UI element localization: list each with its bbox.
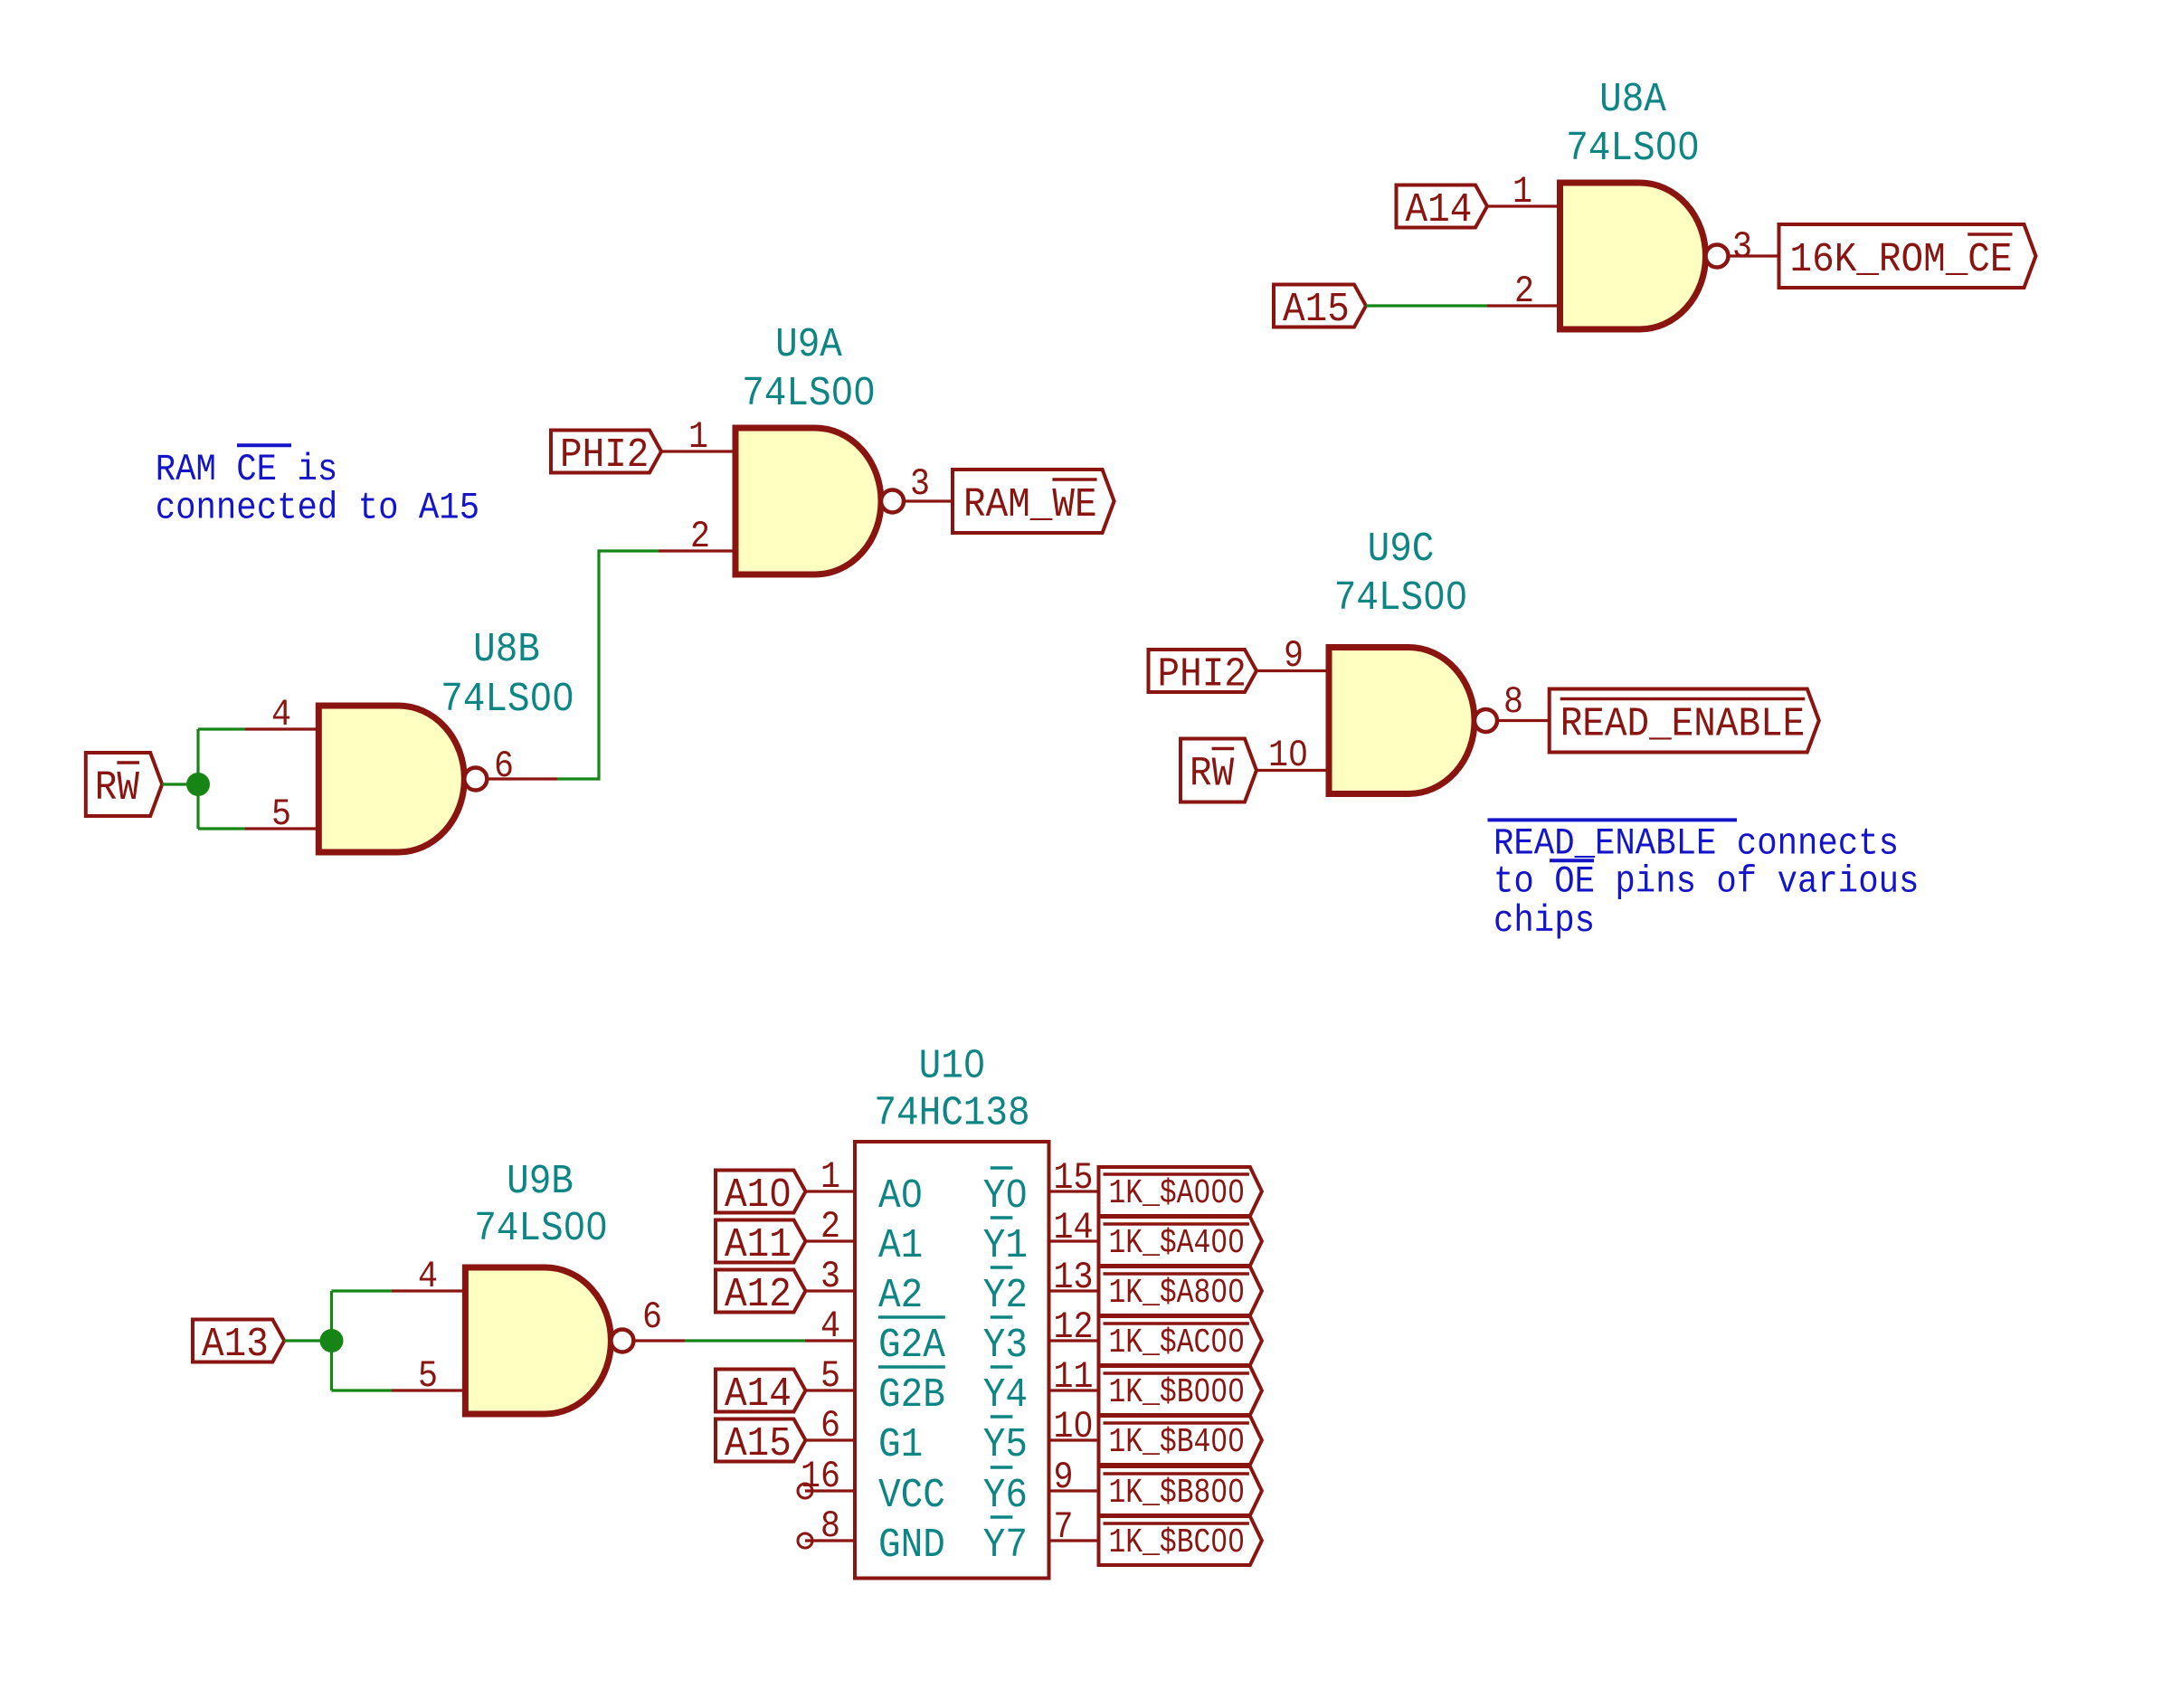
U10 pin name G2B [878, 1367, 945, 1419]
svg-text:U9B: U9B [507, 1159, 574, 1205]
svg-text:10: 10 [1268, 734, 1308, 777]
U10 pin 2 (A1) left [805, 1205, 855, 1248]
global label 1K_$A800 (overline all) [1099, 1267, 1262, 1315]
global label A12 at U10 [716, 1270, 806, 1319]
U8B pin 6 (output) [488, 745, 557, 788]
svg-text:U9C: U9C [1368, 527, 1435, 573]
svg-text:5: 5 [418, 1354, 438, 1398]
svg-text:PHI2: PHI2 [560, 432, 649, 479]
U10 pin 3 (A2) left [805, 1255, 855, 1298]
svg-text:A1: A1 [878, 1223, 923, 1269]
U8B pin 4 [245, 693, 318, 736]
global label 1K_$A400 (overline all) [1099, 1217, 1262, 1266]
svg-text:Y5: Y5 [983, 1422, 1028, 1468]
svg-text:1K_$A400: 1K_$A400 [1109, 1224, 1245, 1263]
U8A pin 2 [1487, 270, 1560, 313]
svg-text:2: 2 [1514, 270, 1534, 313]
U9B value 74LS00 [474, 1206, 608, 1252]
svg-text:G1: G1 [878, 1422, 923, 1468]
svg-text:3: 3 [1732, 225, 1752, 269]
svg-text:RAM CE is: RAM CE is [156, 448, 338, 491]
U8A reference U8A [1599, 77, 1666, 123]
svg-text:VCC: VCC [878, 1473, 945, 1519]
U10 pin 9 (Y6) right [1049, 1456, 1099, 1499]
svg-text:GND: GND [878, 1523, 945, 1569]
svg-text:A14: A14 [725, 1371, 792, 1418]
U10 pin name Y6 [983, 1467, 1028, 1519]
svg-text:U9A: U9A [775, 322, 842, 368]
U9A pin 1 [661, 415, 735, 459]
svg-text:U8A: U8A [1599, 77, 1666, 123]
svg-text:1K_$AC00: 1K_$AC00 [1109, 1324, 1245, 1362]
wire RW to junction [162, 783, 198, 785]
U9A value 74LS00 [742, 371, 876, 417]
global label 1K_$B400 (overline all) [1099, 1416, 1262, 1465]
U10 pin name Y3 [983, 1317, 1028, 1369]
svg-text:4: 4 [820, 1305, 840, 1348]
global label A10 at U10 [716, 1171, 806, 1219]
svg-text:1: 1 [1512, 170, 1532, 213]
global label A14 at U10 [716, 1370, 806, 1419]
U10 pin 7 (Y7) right [1049, 1505, 1099, 1549]
U10 pin 1 (A0) left [805, 1155, 855, 1199]
GND unconnected flag [798, 1533, 812, 1548]
wire A13 to junction [284, 1339, 331, 1342]
U9C value 74LS00 [1334, 575, 1468, 622]
global label 1K_$B000 (overline all) [1099, 1366, 1262, 1415]
U9A pin 2 [659, 515, 735, 558]
svg-text:6: 6 [494, 745, 514, 788]
global label 1K_$BC00 (overline all) [1099, 1516, 1262, 1565]
VCC unconnected flag [798, 1484, 812, 1498]
note: RAM CE is connected to A15 [156, 445, 479, 529]
U9B pin 5 [392, 1354, 465, 1398]
global label A15 at U10 [716, 1419, 806, 1468]
U8A pin 3 (output) [1729, 225, 1779, 269]
U8B reference U8B [473, 627, 540, 673]
svg-text:READ_ENABLE: READ_ENABLE [1560, 702, 1806, 748]
U10 pin name G1 [878, 1422, 923, 1468]
svg-text:Y7: Y7 [983, 1523, 1028, 1569]
U8A pin 1 [1487, 170, 1560, 213]
wire A15 to U8A pin 2 [1366, 304, 1487, 307]
svg-text:74LS00: 74LS00 [1334, 575, 1468, 622]
svg-text:74LS00: 74LS00 [742, 371, 876, 417]
global label 1K_$B800 (overline all) [1099, 1466, 1262, 1515]
svg-text:9: 9 [1284, 634, 1304, 678]
svg-text:A15: A15 [725, 1421, 792, 1467]
global label RW at U9C (overline W) [1181, 739, 1256, 802]
wire junction vertical at U9B [330, 1291, 333, 1390]
wire U9B out to U10 G2A [685, 1339, 806, 1342]
U10 pin name Y4 [983, 1367, 1028, 1419]
svg-text:16: 16 [801, 1455, 840, 1498]
gate U9C 74LS00 NAND [1329, 648, 1497, 794]
U10 pin name G2A [878, 1317, 945, 1369]
U10 pin 11 (Y4) right [1049, 1355, 1099, 1399]
note: READ_ENABLE connects to OE pins of various chips [1488, 820, 1920, 943]
U8B pin 5 [245, 792, 318, 836]
svg-text:A11: A11 [725, 1222, 792, 1268]
U10 pin 8 (GND) left [805, 1504, 855, 1548]
svg-text:16K_ROM_CE: 16K_ROM_CE [1790, 237, 2013, 283]
svg-text:15: 15 [1054, 1156, 1094, 1200]
svg-text:1K_$B400: 1K_$B400 [1109, 1423, 1245, 1462]
svg-text:1: 1 [820, 1155, 840, 1199]
svg-text:10: 10 [1054, 1405, 1094, 1448]
U10 pin 12 (Y3) right [1049, 1305, 1099, 1349]
svg-text:13: 13 [1054, 1256, 1094, 1299]
gate U9A 74LS00 NAND [735, 428, 904, 574]
svg-text:1: 1 [688, 415, 708, 459]
U10 pin name Y7 [983, 1517, 1028, 1569]
svg-text:A2: A2 [878, 1273, 923, 1319]
svg-text:A12: A12 [725, 1272, 792, 1318]
global label READ_ENABLE (overline all) [1550, 689, 1819, 753]
svg-text:chips: chips [1493, 899, 1595, 943]
gate U9B 74LS00 NAND [465, 1267, 633, 1414]
svg-text:5: 5 [820, 1354, 840, 1398]
svg-text:4: 4 [271, 693, 291, 736]
wire to U9B pin 4 [332, 1289, 393, 1292]
U10 pin 5 (G2B) left [805, 1354, 855, 1398]
U9C reference U9C [1368, 527, 1435, 573]
global label PHI2 [551, 431, 661, 479]
U10 pin 6 (G1) left [805, 1404, 855, 1447]
U10 pin name A1 [878, 1223, 923, 1269]
U10 pin 10 (Y5) right [1049, 1405, 1099, 1448]
U10 pin name Y2 [983, 1267, 1028, 1319]
svg-text:8: 8 [1503, 680, 1523, 724]
svg-text:Y6: Y6 [983, 1473, 1028, 1519]
svg-text:6: 6 [820, 1404, 840, 1447]
svg-text:5: 5 [271, 792, 291, 836]
gate U8A 74LS00 NAND [1560, 183, 1729, 329]
global label A15 [1274, 285, 1366, 334]
gate U8B 74LS00 NAND [318, 706, 487, 852]
svg-text:A0: A0 [878, 1173, 923, 1219]
U10 pin name Y0 [983, 1168, 1028, 1219]
svg-text:Y1: Y1 [983, 1223, 1028, 1269]
svg-text:READ_ENABLE connects: READ_ENABLE connects [1493, 821, 1899, 865]
svg-text:1K_$B800: 1K_$B800 [1109, 1474, 1245, 1513]
svg-text:14: 14 [1054, 1206, 1094, 1249]
svg-text:8: 8 [820, 1504, 840, 1548]
global label RAM_WE (overline WE) [953, 470, 1114, 533]
svg-text:3: 3 [910, 462, 930, 506]
svg-text:G2B: G2B [878, 1372, 945, 1419]
svg-text:1K_$A000: 1K_$A000 [1109, 1174, 1245, 1213]
U10 pin 15 (Y0) right [1049, 1156, 1099, 1200]
U9C pin 8 (output) [1498, 680, 1550, 724]
svg-text:Y4: Y4 [983, 1372, 1028, 1419]
svg-text:RAM_WE: RAM_WE [963, 482, 1097, 528]
svg-text:A13: A13 [202, 1322, 269, 1368]
svg-text:74LS00: 74LS00 [474, 1206, 608, 1252]
svg-text:7: 7 [1054, 1505, 1074, 1549]
svg-text:RW: RW [95, 765, 139, 811]
U10 pin 4 (G2A) left [805, 1305, 855, 1348]
U10 pin name A2 [878, 1273, 923, 1319]
svg-text:2: 2 [820, 1205, 840, 1248]
U9C pin 10 [1256, 734, 1329, 777]
U10 pin name A0 [878, 1173, 923, 1219]
svg-text:9: 9 [1054, 1456, 1074, 1499]
svg-text:U8B: U8B [473, 627, 540, 673]
svg-text:2: 2 [690, 515, 710, 558]
U10 pin name Y1 [983, 1218, 1028, 1269]
svg-text:3: 3 [820, 1255, 840, 1298]
svg-text:A14: A14 [1406, 187, 1473, 233]
U10 pin name GND [878, 1523, 945, 1569]
svg-text:connected to A15: connected to A15 [156, 487, 479, 530]
svg-text:74LS00: 74LS00 [1566, 126, 1700, 172]
svg-text:1K_$A800: 1K_$A800 [1109, 1274, 1245, 1313]
U9C pin 9 [1256, 634, 1329, 678]
U10 74HC138 body [855, 1142, 1049, 1579]
svg-text:4: 4 [418, 1255, 438, 1298]
svg-text:6: 6 [642, 1295, 662, 1339]
junction at RW [186, 773, 210, 796]
wire to U8B pin 4 [198, 727, 245, 730]
global label 1K_$A000 (overline all) [1099, 1167, 1262, 1216]
svg-text:RW: RW [1190, 752, 1234, 798]
global label A13 [193, 1320, 284, 1369]
svg-text:A15: A15 [1283, 287, 1350, 333]
svg-text:12: 12 [1054, 1305, 1094, 1349]
svg-text:G2A: G2A [878, 1323, 945, 1369]
svg-text:PHI2: PHI2 [1158, 652, 1247, 698]
global label RW (overline W) [86, 753, 162, 816]
svg-text:Y0: Y0 [983, 1173, 1028, 1219]
U10 pin 13 (Y2) right [1049, 1256, 1099, 1299]
wire junction vertical [196, 729, 199, 829]
U10 pin name Y5 [983, 1417, 1028, 1468]
U9B pin 4 [392, 1255, 465, 1298]
U10 reference U10 [919, 1044, 986, 1090]
U8B value 74LS00 [441, 677, 574, 723]
U10 pin 16 (VCC) left [801, 1455, 855, 1498]
svg-text:to OE pins of various: to OE pins of various [1493, 860, 1919, 904]
U9A pin 3 (output) [904, 462, 953, 506]
wire to U9B pin 5 [332, 1389, 393, 1391]
U10 pin 14 (Y1) right [1049, 1206, 1099, 1249]
svg-text:74LS00: 74LS00 [441, 677, 574, 723]
junction at A13 [320, 1329, 344, 1352]
global label A14 [1397, 185, 1488, 234]
U9A reference U9A [775, 322, 842, 368]
U9B reference U9B [507, 1159, 574, 1205]
svg-text:1K_$B000: 1K_$B000 [1109, 1373, 1245, 1412]
svg-text:Y3: Y3 [983, 1323, 1028, 1369]
wire U8B out to U9A pin 2 [557, 549, 659, 780]
svg-text:11: 11 [1054, 1355, 1094, 1399]
global label PHI2 at U9C [1149, 650, 1257, 698]
U10 pin name VCC [878, 1473, 945, 1519]
svg-text:74HC138: 74HC138 [874, 1091, 1029, 1137]
U8A value 74LS00 [1566, 126, 1700, 172]
svg-text:Y2: Y2 [983, 1273, 1028, 1319]
global label A11 at U10 [716, 1220, 806, 1269]
global label 1K_$AC00 (overline all) [1099, 1316, 1262, 1365]
svg-text:1K_$BC00: 1K_$BC00 [1109, 1523, 1245, 1562]
U9B pin 6 (output) [634, 1295, 685, 1341]
global label 16K_ROM_CE (overline CE) [1779, 224, 2036, 288]
U10 value 74HC138 [874, 1091, 1029, 1137]
wire to U8B pin 5 [198, 827, 245, 830]
